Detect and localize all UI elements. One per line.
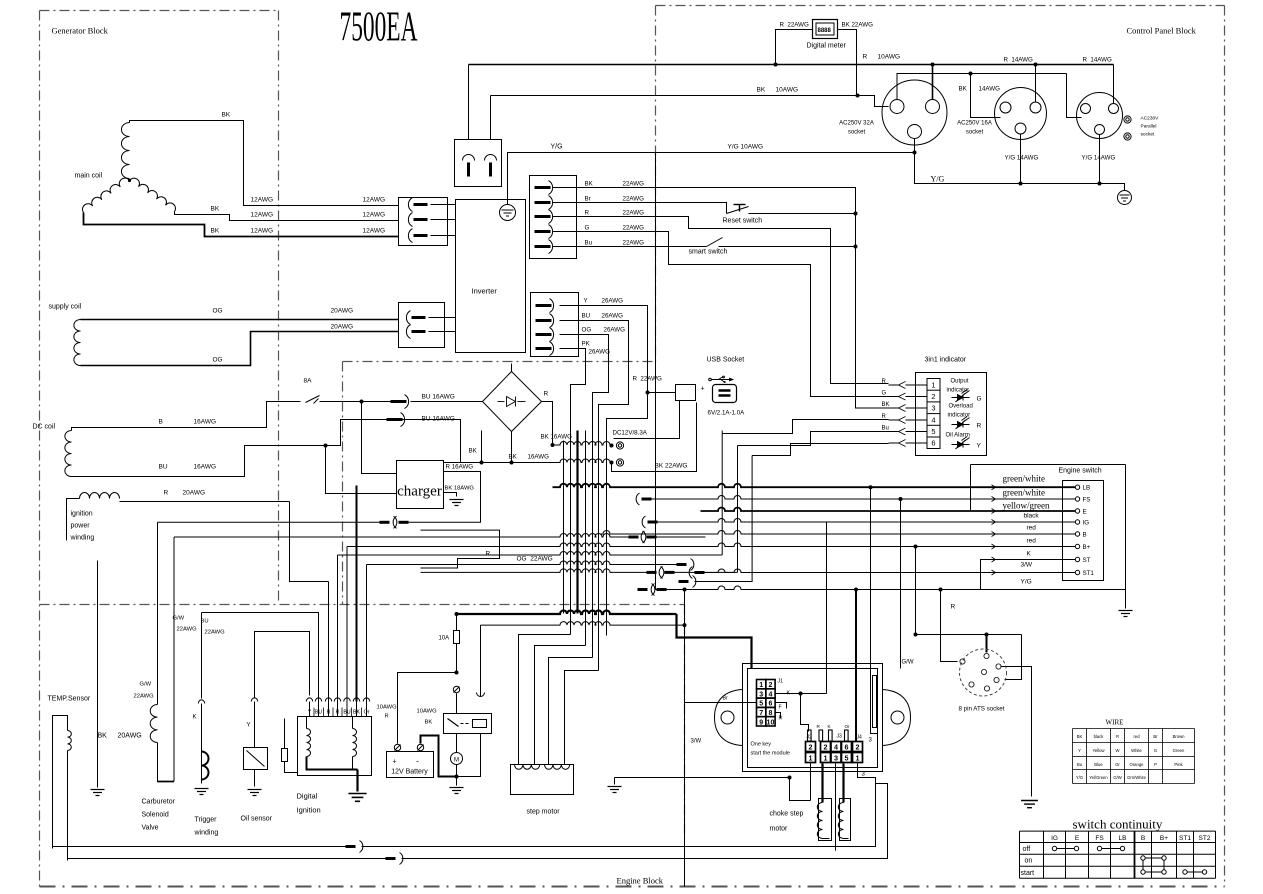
svg-text:Engine Block: Engine Block [617,876,664,886]
svg-text:6: 6 [931,439,935,448]
svg-text:22AWG: 22AWG [134,694,155,700]
wire temp leg2 bottom run [68,858,386,860]
main coil winding [121,123,129,179]
oil sensor internal resistor [282,749,288,762]
svg-text:Output: Output [951,379,969,385]
module J1 grid [757,680,766,689]
svg-text:R 22AWG: R 22AWG [780,22,810,29]
svg-text:LB: LB [1083,485,1091,492]
svg-text:Yellow: Yellow [1093,748,1106,753]
wire meter right BK 22AWG [838,30,857,96]
wire K from module grid [775,693,827,695]
svg-text:14AWG: 14AWG [979,86,1001,93]
ground parallel socket [1118,191,1132,205]
svg-text:G/W: G/W [902,660,914,666]
svg-text:Y: Y [977,443,982,450]
battery terminal - [417,744,423,750]
svg-text:BK: BK [98,733,108,740]
svg-text:G/W: G/W [173,616,185,622]
step motor wires [519,635,571,765]
wire Br into module [685,702,757,704]
wire BK 20AWG ground [97,561,99,788]
svg-text:Y/G 14AWG: Y/G 14AWG [1082,155,1116,162]
svg-text:8 pin ATS socket: 8 pin ATS socket [959,706,1005,713]
wire green/white row LB [553,484,1076,487]
svg-text:motor: motor [770,826,789,833]
ground temp [91,789,105,791]
svg-text:1: 1 [931,381,935,390]
svg-text:10AWG: 10AWG [377,705,398,711]
svg-text:8888: 8888 [818,28,832,34]
svg-text:smart switch: smart switch [689,249,728,256]
svg-text:Carburetor: Carburetor [142,799,176,806]
svg-text:22AWG: 22AWG [623,181,645,188]
svg-text:BU: BU [159,464,168,471]
svg-text:22AWG: 22AWG [623,225,645,232]
svg-text:12AWG: 12AWG [363,197,386,204]
border: control panel block dashed frame [656,5,1225,7]
svg-text:R: R [882,379,887,385]
wire temp leg1 bottom run [53,846,346,848]
svg-text:G: G [882,391,887,397]
wire bridge left to BU connector [411,401,483,403]
wire BK 22AWG inverter to 3in1 pin3 [553,188,889,409]
svg-text:red: red [1133,734,1140,739]
svg-text:R: R [977,423,982,430]
svg-text:R: R [863,54,868,61]
wire DC coil top to 8A switch [72,402,301,431]
svg-text:Y: Y [584,298,588,305]
wire socket1 right pin [932,65,934,100]
wire black row IG [642,516,645,528]
wire Y/G bottom row [655,153,657,590]
wire plug right to BK wire [490,96,492,140]
svg-text:R: R [336,710,340,716]
svg-text:R 16AWG: R 16AWG [446,464,474,471]
svg-text:Green: Green [1173,748,1185,753]
svg-text:2: 2 [931,392,935,401]
engine switch ground [1125,590,1127,609]
wire row 581 stub [679,580,689,583]
wire Y/G from inverter ground [508,153,915,205]
wire bridge right R [542,402,553,445]
socket AC250V 16A [995,88,1047,140]
wire G 22AWG to 3in1 pin2 [553,232,889,397]
svg-text:Solenoid: Solenoid [142,812,169,819]
svg-text:Br: Br [1153,734,1158,739]
module feed verticals [869,485,873,489]
svg-text:Brown: Brown [1173,734,1186,739]
supply coil winding [74,320,81,366]
svg-text:B: B [159,419,163,426]
wire socket2 right pin [1035,65,1037,102]
svg-text:P: P [1154,762,1157,767]
svg-text:B: B [1141,835,1145,842]
svg-text:12AWG: 12AWG [363,228,386,235]
connector pair R 20AWG [158,521,380,523]
svg-text:charger: charger [397,484,442,500]
svg-text:OG 22AWG: OG 22AWG [517,556,553,563]
ATS socket circle [960,649,1007,696]
svg-text:J1: J1 [778,679,784,685]
svg-text:9: 9 [759,719,763,726]
svg-text:Ignition: Ignition [297,806,321,815]
svg-text:off: off [1023,846,1031,853]
svg-text:Yel/Green: Yel/Green [1089,775,1108,780]
wire to 3in1 pin4 [723,420,889,434]
wire main coil bottom BK [84,213,399,237]
svg-text:TEMP.Sensor: TEMP.Sensor [48,696,91,703]
wire BK 16AWG row to DC terminal2 [444,459,612,463]
svg-text:G/W: G/W [140,682,152,688]
wire bundle vertical 7 Y staircase [560,306,648,636]
wire plug left to top R wire [468,65,470,140]
svg-text:B: B [1083,532,1087,539]
svg-text:DC12V/8.3A: DC12V/8.3A [613,430,648,437]
svg-text:Y: Y [1078,748,1081,753]
module stub F [775,703,787,709]
svg-text:BK: BK [509,454,518,461]
svg-text:BK: BK [882,402,890,408]
svg-text:Y/G: Y/G [931,175,945,184]
parallel terminals [1124,116,1131,123]
digital ignition coils [307,729,311,757]
wire socket3 right pin [1113,65,1115,104]
wire ATS left pin [939,588,943,592]
wire K row ST [981,560,1076,590]
svg-text:M: M [454,758,459,764]
wire to socket2 left pin [971,74,1001,118]
wire to socket3 left pin [1067,74,1082,118]
wire ATS top pin [916,634,1022,636]
svg-text:F: F [779,705,782,711]
svg-text:16AWG: 16AWG [194,464,217,471]
wire yellow/green row E [701,508,1076,512]
svg-text:BU: BU [343,710,350,716]
wire DC coil bottom BU 16AWG [72,420,387,477]
svg-text:Inverter: Inverter [472,287,498,296]
svg-text:Generator Block: Generator Block [52,26,109,36]
svg-text:R: R [164,490,169,497]
relay arm connector [477,693,485,697]
svg-text:BK: BK [353,710,360,716]
wire rows left section [174,534,629,538]
svg-text:step motor: step motor [527,809,561,816]
plug connector box above inverter [455,140,502,187]
svg-text:BK: BK [211,228,220,235]
wire bundle vertical 2 PK staircase [560,349,586,635]
svg-text:WIRE: WIRE [1106,719,1124,727]
svg-text:1: 1 [824,754,828,763]
svg-text:R: R [544,391,549,398]
svg-text:Y/G: Y/G [551,144,563,151]
wire row 554 [721,431,723,556]
svg-text:5: 5 [931,427,935,436]
wire 3/W row ST1 [689,567,692,579]
svg-text:ST: ST [1083,557,1091,564]
svg-text:LB: LB [1119,835,1127,842]
svg-text:Bu: Bu [585,240,593,247]
svg-text:Y/G 14AWG: Y/G 14AWG [1005,155,1039,162]
wire module ground run [615,777,790,779]
svg-text:Control Panel Block: Control Panel Block [1127,26,1197,36]
svg-text:BU 16AWG: BU 16AWG [422,394,455,401]
wire 3in1 pin6 [752,444,888,456]
svg-text:R 14AWG: R 14AWG [1083,57,1113,64]
svg-text:10: 10 [767,719,775,726]
svg-text:26AWG: 26AWG [602,313,624,320]
svg-text:yellow/green: yellow/green [1003,501,1050,511]
svg-text:J4: J4 [857,735,863,741]
reset switch [553,203,727,214]
wire row 572 connector pair [421,569,647,573]
svg-text:B+: B+ [1083,544,1091,551]
svg-text:green/white: green/white [1003,488,1045,498]
wire Y/G ground run [915,153,1125,191]
wire bundle vertical 3 bold [576,431,578,614]
svg-text:BK: BK [959,86,968,93]
oil sensor [251,698,257,702]
ground battery motor [456,777,458,786]
wire BK 16AWG row to DC terminal1 [553,442,612,445]
battery terminal + [394,744,400,750]
svg-text:socket: socket [966,130,984,136]
svg-text:20AWG: 20AWG [331,308,354,315]
border: engine block dashed frame [343,361,656,363]
step motor box [511,765,574,795]
row arrows [986,486,996,488]
svg-text:BK: BK [585,181,594,188]
svg-text:Engine switch: Engine switch [1059,468,1102,475]
wire main coil mid BK [175,212,399,221]
svg-text:winding: winding [194,830,219,837]
motor M [451,753,463,765]
svg-text:ST1: ST1 [1083,570,1095,577]
svg-text:Digital meter: Digital meter [807,43,847,50]
wire BK 22AWG terminal2 [612,403,697,472]
carb wires up [157,522,159,640]
svg-text:ignition: ignition [71,511,93,518]
svg-text:7500EA: 7500EA [340,5,418,51]
inverter box [456,200,526,353]
svg-text:4: 4 [834,743,838,752]
svg-text:BU: BU [315,710,322,716]
DC terminal 1 [616,442,623,449]
svg-text:3in1 indicator: 3in1 indicator [925,357,967,364]
svg-text:G: G [1154,748,1157,753]
svg-text:12AWG: 12AWG [251,197,274,204]
svg-text:Grn/White: Grn/White [1127,775,1147,780]
wire bundle vertical 4 [585,431,587,646]
svg-text:ST2: ST2 [1199,835,1211,842]
svg-text:red: red [1027,538,1037,545]
svg-text:ST1: ST1 [1179,835,1191,842]
DC coil winding [65,431,72,477]
wire bridge top [511,364,513,372]
svg-text:E: E [1083,509,1087,516]
svg-text:12V Battery: 12V Battery [391,769,428,776]
wire G/W to ATS [914,545,918,549]
wire BK 10AWG run [491,96,889,107]
choke step motor wires [810,764,812,801]
svg-text:red: red [1027,525,1037,532]
svg-text:start: start [1021,870,1035,877]
smart switch [553,246,707,248]
svg-text:USB Socket: USB Socket [707,357,745,364]
svg-text:10AWG: 10AWG [417,709,438,715]
svg-text:Parallel: Parallel [1141,124,1157,130]
svg-text:One key: One key [751,742,772,748]
wire BU conn2 to bridge bottom [403,420,461,463]
svg-text:G: G [585,225,590,232]
svg-text:Blue: Blue [1094,762,1103,767]
svg-text:K: K [193,715,197,721]
svg-text:10A: 10A [439,636,450,642]
svg-text:R: R [951,604,956,611]
svg-text:Digital: Digital [297,792,318,801]
svg-text:OG: OG [213,308,223,315]
svg-text:26AWG: 26AWG [589,349,611,356]
connector box main coil [399,198,448,246]
svg-text:power: power [71,523,91,530]
svg-text:winding: winding [70,535,95,542]
svg-text:20AWG: 20AWG [183,490,206,497]
svg-text:Br: Br [723,696,728,702]
svg-text:BU: BU [582,313,591,320]
wire bundle vertical 5 OG staircase [560,335,609,658]
svg-text:BK 18AWG: BK 18AWG [445,486,475,492]
svg-text:+: + [392,759,396,766]
svg-text:6: 6 [845,743,849,752]
svg-text:12AWG: 12AWG [363,212,386,219]
svg-text:Bu: Bu [882,426,889,432]
relay coil circuit [456,694,458,714]
svg-text:2: 2 [809,743,813,752]
svg-text:choke step: choke step [770,811,804,818]
svg-text:IG: IG [1083,520,1090,527]
svg-text:Oil sensor: Oil sensor [241,816,273,823]
svg-text:1: 1 [809,754,813,763]
svg-text:FS: FS [1083,497,1091,504]
svg-text:22AWG: 22AWG [623,210,645,217]
svg-text:switch continuity: switch continuity [1073,817,1163,832]
svg-text:2: 2 [824,743,828,752]
svg-text:AC230V: AC230V [1141,116,1160,122]
wire supply coil top OG [81,319,399,321]
svg-text:indicator: indicator [948,413,971,419]
svg-text:3/W: 3/W [691,739,702,745]
wire R jog [421,530,500,568]
bridge rectifier [483,372,542,432]
svg-text:Y: Y [308,710,312,716]
wire bundle vertical 6 BU staircase [560,321,629,671]
svg-text:White: White [1131,748,1142,753]
svg-text:22AWG: 22AWG [177,627,198,633]
carburetor solenoid valve [157,641,159,705]
svg-text:R: R [1116,734,1119,739]
svg-text:BK 22AWG: BK 22AWG [842,22,874,29]
svg-text:26AWG: 26AWG [602,298,624,305]
svg-text:R: R [882,414,887,420]
wire red row B [601,531,1076,535]
svg-text:BK: BK [469,448,478,455]
svg-text:3: 3 [931,404,935,413]
svg-text:26AWG: 26AWG [604,327,626,334]
svg-text:BK: BK [222,112,231,119]
engine switch box [971,464,1126,466]
svg-text:10AWG: 10AWG [878,54,901,61]
inverter ground symbol [500,205,516,221]
module slot bar [873,676,877,728]
wire BK branch [481,431,483,463]
svg-text:BK: BK [211,206,220,213]
wire to 3in1 pin5 [738,432,889,446]
wire socket1 left pin BK 14AWG [897,74,1067,100]
svg-text:4: 4 [931,416,935,425]
svg-text:Trigger: Trigger [195,817,218,824]
module stub R2 [775,713,781,719]
svg-text:supply coil: supply coil [49,304,82,311]
svg-text:6V/2.1A-1.0A: 6V/2.1A-1.0A [708,410,746,417]
svg-text:G/W: G/W [1113,775,1121,780]
svg-text:start the module: start the module [751,751,790,757]
svg-text:3/W: 3/W [1021,562,1033,569]
svg-text:FS: FS [1095,835,1104,842]
svg-text:22AWG: 22AWG [623,196,645,203]
wire main coil top BK [130,121,399,206]
svg-text:R: R [585,210,590,217]
svg-text:BK 22AWG: BK 22AWG [655,463,688,470]
svg-text:main coil: main coil [75,173,103,180]
svg-text:Y: Y [247,723,251,729]
digital ignition pins [306,698,312,702]
svg-text:BK: BK [1077,734,1083,739]
svg-text:black: black [1094,734,1105,739]
svg-text:1: 1 [856,754,860,763]
wire green/white row FS [636,493,639,505]
charger box [397,461,444,509]
socket parallel [1077,93,1123,139]
wire battery positive [398,673,457,744]
relay box [444,714,492,734]
svg-text:12AWG: 12AWG [251,212,274,219]
wire charger BK 18AWG to ground [444,493,457,497]
wire 8A switch to connector BU 16AWG [320,401,399,403]
socket AC250V 32A [882,80,947,145]
svg-text:IG: IG [1051,835,1058,842]
svg-text:Br: Br [585,196,591,203]
ignition power winding coil [80,493,120,499]
wire 3/W vertical [684,590,686,887]
svg-text:16AWG: 16AWG [194,419,217,426]
svg-text:Pink: Pink [1174,762,1183,767]
DC terminal 2 [616,459,623,466]
12V battery box [387,752,434,778]
wire meter left R 22AWG [776,30,813,65]
digital ignition box [298,717,372,776]
wire supply coil bottom OG [81,332,399,366]
svg-text:AC250V 32A: AC250V 32A [839,121,874,127]
inverter output connector box 26AWG [531,293,579,357]
svg-text:8A: 8A [304,378,313,385]
svg-text:-: - [416,757,419,766]
wire thick battery feed [457,611,677,615]
svg-text:on: on [1025,858,1033,865]
svg-text:G: G [977,396,982,403]
svg-text:K: K [1027,551,1032,558]
wire 8A junction to charger [362,402,397,474]
svg-text:20AWG: 20AWG [118,733,142,740]
